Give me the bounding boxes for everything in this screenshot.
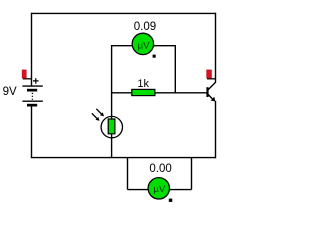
svg-text:µV: µV <box>153 184 165 195</box>
wire bottom rail <box>31 157 216 159</box>
battery B1 9V <box>22 78 42 106</box>
svg-text:0.00: 0.00 <box>149 163 171 175</box>
LDR light arrows <box>92 109 104 121</box>
svg-text:µV: µV <box>138 40 150 51</box>
wire voltmeter U2 horizontal <box>128 189 192 191</box>
voltmeter U1 <box>132 33 156 57</box>
wire battery negative lead <box>31 106 33 157</box>
wire right rail to collector <box>215 13 217 83</box>
voltage probe P1 (battery) <box>22 70 31 79</box>
voltage probe P2 (collector) <box>207 70 216 79</box>
voltmeter U2 <box>148 178 172 202</box>
wire inner-left vertical through LDR <box>111 45 113 158</box>
wire voltmeter U1 horizontal <box>112 45 176 47</box>
wire voltmeter U2 left drop <box>127 158 129 190</box>
wire voltmeter U1 right drop <box>174 45 176 93</box>
wire base rail with resistor <box>112 92 208 94</box>
svg-text:0.09: 0.09 <box>134 21 156 33</box>
wire top rail <box>32 12 216 14</box>
transistor Q1 <box>208 82 216 101</box>
LDR R2 <box>101 116 122 137</box>
svg-text:1k: 1k <box>137 78 149 90</box>
wire left rail (battery positive lead) <box>31 13 33 86</box>
wire emitter to bottom rail <box>215 101 217 159</box>
svg-text:9V: 9V <box>3 86 17 98</box>
resistor R1 1k <box>132 89 155 95</box>
wire voltmeter U2 right drop <box>191 158 193 190</box>
